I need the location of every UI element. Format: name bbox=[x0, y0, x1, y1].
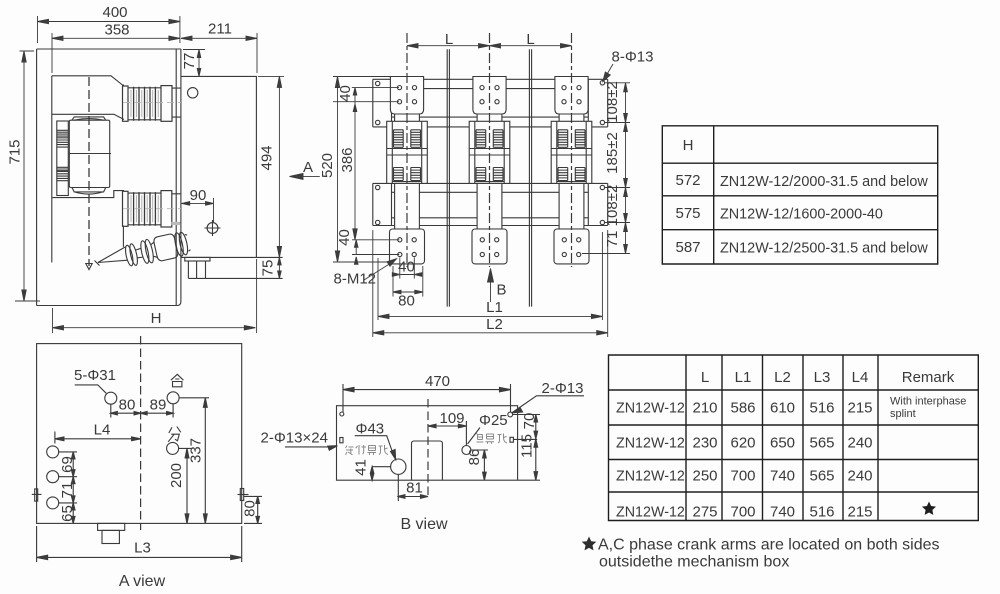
svg-text:B: B bbox=[497, 282, 507, 299]
L table row 4 bbox=[616, 504, 873, 521]
svg-text:185±2: 185±2 bbox=[604, 132, 621, 174]
dim 71 (left) bbox=[58, 477, 77, 503]
svg-text:L2: L2 bbox=[486, 316, 503, 333]
lower bushing ribs bbox=[134, 192, 156, 226]
svg-text:250: 250 bbox=[692, 468, 717, 485]
foot bottom line with extension bbox=[188, 277, 282, 279]
svg-text:H: H bbox=[683, 137, 694, 154]
svg-text:L4: L4 bbox=[94, 422, 111, 439]
svg-text:358: 358 bbox=[104, 22, 129, 39]
lower bushing rib shadows bbox=[131, 195, 158, 222]
flexible insulator ribs bbox=[124, 230, 192, 268]
dim 40 top line bbox=[354, 88, 356, 102]
mechanism box front outline bbox=[37, 344, 242, 524]
SIDE VIEW DIMENSIONS bbox=[7, 4, 320, 333]
svg-text:outsidethe mechanism box: outsidethe mechanism box bbox=[599, 554, 789, 571]
dim L right segment bbox=[490, 45, 572, 47]
interrupter cylinder body bbox=[69, 120, 109, 187]
interrupter mid line bbox=[69, 153, 111, 155]
top mounting rail bbox=[373, 79, 608, 127]
L table row 2 bbox=[616, 435, 873, 452]
side hole 2 bbox=[47, 471, 59, 483]
svg-text:L3: L3 bbox=[134, 540, 151, 557]
dim 75 arrows bbox=[278, 257, 282, 278]
svg-text:L: L bbox=[701, 369, 709, 386]
dim H line bbox=[53, 259, 257, 333]
svg-text:80: 80 bbox=[398, 293, 415, 310]
svg-text:565: 565 bbox=[809, 435, 834, 452]
upper bushing stub bbox=[172, 88, 181, 117]
right mount tab bbox=[238, 489, 249, 501]
frame hole circle bbox=[188, 88, 198, 98]
left column hatch band 2 bbox=[57, 138, 69, 147]
left support column bbox=[57, 121, 69, 196]
dim 115 bbox=[518, 439, 540, 481]
svg-text:L: L bbox=[445, 31, 453, 48]
svg-text:200: 200 bbox=[168, 463, 185, 488]
svg-text:Φ25: Φ25 bbox=[479, 412, 508, 429]
dim 211 line bbox=[181, 33, 257, 73]
svg-text:L1: L1 bbox=[735, 369, 752, 386]
pole A bbox=[387, 33, 428, 267]
dim 40 bottom-left line bbox=[355, 240, 357, 255]
svg-text:620: 620 bbox=[730, 435, 755, 452]
dim 77 arrows bbox=[197, 50, 201, 77]
A direction arrow bbox=[302, 175, 320, 177]
dim H arrows bbox=[53, 326, 256, 330]
left extension lines bbox=[333, 77, 399, 263]
lower bushing centerline bbox=[123, 208, 181, 210]
dim 40 horizontal bbox=[400, 258, 415, 279]
dim 65 bbox=[72, 503, 74, 524]
svg-text:40: 40 bbox=[336, 229, 353, 246]
label 8-Φ13 leader bbox=[605, 64, 614, 79]
svg-text:115: 115 bbox=[519, 434, 536, 458]
open symbol 分 bbox=[168, 427, 181, 442]
lower arm top outline bbox=[52, 191, 124, 198]
svg-text:With interphase: With interphase bbox=[890, 396, 966, 408]
L table row 3 bbox=[616, 468, 873, 485]
svg-text:ZN12W-12/2000-31.5 and below: ZN12W-12/2000-31.5 and below bbox=[720, 174, 928, 190]
label buffer-hole (Chinese) bbox=[346, 445, 389, 455]
svg-text:494: 494 bbox=[259, 145, 276, 170]
dim 520 line bbox=[337, 77, 339, 263]
svg-text:109: 109 bbox=[439, 410, 464, 427]
svg-text:A,C phase crank arms are locat: A,C phase crank arms are located on both… bbox=[598, 537, 940, 554]
svg-text:572: 572 bbox=[675, 172, 700, 189]
left column hatch band 4 bbox=[57, 172, 69, 181]
label 2-Φ13×24 leader bbox=[285, 446, 333, 448]
svg-text:215: 215 bbox=[847, 504, 872, 521]
notch cutout bbox=[412, 441, 443, 480]
dim L left segment bbox=[407, 45, 490, 47]
dim 86 bbox=[471, 450, 488, 480]
slot hole left edge bbox=[340, 438, 343, 443]
svg-text:H: H bbox=[151, 310, 162, 327]
pole frame plate bbox=[181, 76, 257, 257]
dim 108±2 top line bbox=[625, 83, 627, 123]
dim 400 arrows bbox=[38, 19, 180, 23]
svg-text:516: 516 bbox=[809, 504, 834, 521]
H table grid bbox=[662, 126, 937, 264]
svg-text:215: 215 bbox=[847, 400, 872, 417]
svg-text:650: 650 bbox=[770, 435, 795, 452]
tie rod 2 bbox=[529, 49, 531, 306]
close symbol 合 bbox=[171, 374, 184, 387]
svg-text:586: 586 bbox=[730, 400, 755, 417]
dim 358 arrows bbox=[52, 36, 180, 40]
lower bushing end cap bbox=[161, 191, 172, 227]
svg-text:80: 80 bbox=[242, 500, 259, 517]
upper arm bottom outline bbox=[52, 114, 124, 119]
dim 90 arrows bbox=[182, 202, 214, 206]
svg-text:8-M12: 8-M12 bbox=[334, 271, 377, 288]
svg-text:L2: L2 bbox=[774, 369, 791, 386]
crank hole right (close) bbox=[167, 392, 179, 404]
dim 80 horizontal bbox=[393, 266, 423, 297]
lower bushing flange bbox=[123, 191, 129, 226]
svg-text:ZN12W-12/1600-2000-40: ZN12W-12/1600-2000-40 bbox=[720, 207, 883, 223]
lower bushing stub shade bbox=[171, 222, 180, 225]
upper bushing centerline bbox=[123, 102, 181, 104]
svg-text:386: 386 bbox=[339, 147, 356, 172]
SIDE VIEW GROUP bbox=[37, 49, 283, 306]
dim 77 line bbox=[183, 50, 205, 77]
dim 70 bbox=[512, 415, 540, 439]
bottom foot stem bbox=[102, 530, 119, 543]
svg-text:L3: L3 bbox=[814, 369, 831, 386]
dim 715 arrows bbox=[22, 51, 26, 301]
A view centerline bbox=[140, 336, 142, 530]
bottom foot flange bbox=[98, 523, 125, 530]
svg-text:5-Φ31: 5-Φ31 bbox=[74, 367, 116, 384]
svg-text:ZN12W-12: ZN12W-12 bbox=[616, 469, 685, 485]
svg-text:8-Φ13: 8-Φ13 bbox=[612, 49, 654, 66]
B direction arrow bbox=[490, 273, 492, 303]
L table header row bbox=[701, 369, 955, 386]
svg-text:65: 65 bbox=[59, 505, 76, 522]
frame bottom edge with 75-dim extension bbox=[181, 256, 283, 258]
interrupter bottom cap bbox=[72, 188, 106, 195]
svg-text:610: 610 bbox=[770, 400, 795, 417]
base plate outline bbox=[337, 406, 518, 481]
dim L1 bbox=[378, 232, 602, 320]
svg-text:575: 575 bbox=[675, 205, 700, 222]
pole C bbox=[551, 33, 592, 267]
svg-text:90: 90 bbox=[190, 187, 207, 204]
dim 71 line bbox=[625, 223, 627, 254]
svg-text:71: 71 bbox=[59, 482, 76, 499]
svg-text:80: 80 bbox=[119, 397, 136, 414]
svg-text:40: 40 bbox=[398, 259, 415, 276]
svg-text:86: 86 bbox=[466, 449, 483, 466]
mechanism box outline bbox=[37, 49, 181, 306]
dim 108±2 bottom line bbox=[625, 188, 627, 223]
lower bushing stub bbox=[172, 194, 181, 223]
right edge hole extension bbox=[513, 438, 537, 440]
upper bushing rib shadows bbox=[131, 90, 158, 117]
label Φ25 leader bbox=[468, 428, 481, 445]
svg-text:40: 40 bbox=[337, 85, 354, 102]
svg-text:2-Φ13×24: 2-Φ13×24 bbox=[261, 430, 328, 447]
svg-text:2-Φ13: 2-Φ13 bbox=[542, 380, 584, 397]
upper bushing end cap bbox=[161, 86, 172, 122]
label 2-Φ13 leader bbox=[515, 396, 585, 411]
A VIEW GROUP bbox=[32, 336, 262, 590]
upper arm top outline bbox=[52, 76, 124, 85]
svg-text:740: 740 bbox=[770, 468, 795, 485]
pole B bbox=[469, 33, 510, 267]
dim 358 line bbox=[52, 33, 180, 73]
svg-text:81: 81 bbox=[406, 480, 423, 497]
footnote star bbox=[582, 537, 597, 551]
svg-text:337: 337 bbox=[188, 438, 205, 463]
svg-text:240: 240 bbox=[847, 435, 872, 452]
svg-text:77: 77 bbox=[181, 53, 198, 70]
upper bushing flange bbox=[123, 86, 129, 121]
dim 109 bbox=[428, 421, 466, 446]
dim 41 bbox=[372, 467, 391, 481]
bottom mounting rail bbox=[373, 183, 608, 225]
svg-text:108±2: 108±2 bbox=[604, 81, 621, 123]
svg-text:A: A bbox=[303, 159, 313, 176]
svg-text:700: 700 bbox=[730, 504, 755, 521]
open indicator hole bbox=[167, 442, 179, 454]
dim 494 arrows bbox=[277, 76, 281, 257]
dim 715 line bbox=[15, 51, 40, 301]
frame foot flange bbox=[185, 257, 210, 261]
dim 81 bbox=[397, 474, 428, 501]
L table grid bbox=[609, 355, 979, 521]
left column hatch band 3 bbox=[57, 167, 69, 170]
svg-text:ZN12W-12: ZN12W-12 bbox=[616, 436, 685, 452]
side view centerline bbox=[88, 77, 90, 266]
B view centerline bbox=[427, 399, 429, 498]
svg-text:470: 470 bbox=[425, 373, 450, 390]
svg-text:75: 75 bbox=[260, 260, 277, 277]
tie rod 1 bbox=[447, 49, 449, 306]
svg-text:516: 516 bbox=[809, 400, 834, 417]
svg-text:ZN12W-12: ZN12W-12 bbox=[616, 505, 685, 521]
svg-text:740: 740 bbox=[770, 504, 795, 521]
svg-text:211: 211 bbox=[208, 21, 232, 38]
dim 211 arrows bbox=[181, 36, 257, 40]
dim 200 bbox=[179, 448, 191, 523]
svg-text:ZN12W-12/2500-31.5 and below: ZN12W-12/2500-31.5 and below bbox=[720, 241, 928, 257]
crosshair hole bbox=[205, 220, 221, 236]
corner hole left bbox=[340, 412, 344, 416]
side hole 1 bbox=[47, 446, 59, 458]
svg-text:230: 230 bbox=[692, 435, 717, 452]
svg-text:L1: L1 bbox=[486, 299, 503, 316]
svg-text:41: 41 bbox=[353, 459, 370, 476]
svg-text:ZN12W-12: ZN12W-12 bbox=[616, 401, 685, 417]
dim 185±2 line bbox=[625, 123, 627, 188]
upper bushing ribs bbox=[134, 87, 156, 121]
FRONT VIEW DIMENSIONS bbox=[319, 31, 654, 337]
lower bushing rib section bbox=[128, 193, 161, 225]
svg-text:210: 210 bbox=[692, 400, 717, 417]
frame foot box bbox=[188, 261, 205, 278]
interlock hole Φ25 bbox=[462, 446, 471, 455]
right dim extension lines bbox=[582, 83, 630, 254]
svg-text:89: 89 bbox=[150, 397, 167, 414]
dim L3 bbox=[37, 526, 242, 562]
svg-text:715: 715 bbox=[7, 139, 24, 164]
dim 69 bbox=[58, 452, 77, 477]
svg-text:275: 275 bbox=[692, 504, 717, 521]
dim 400 line bbox=[38, 16, 180, 43]
svg-text:520: 520 bbox=[319, 153, 336, 178]
svg-text:587: 587 bbox=[675, 239, 700, 256]
flexible insulator cone bbox=[95, 247, 128, 266]
svg-text:Φ43: Φ43 bbox=[356, 421, 385, 438]
FRONT VIEW GROUP bbox=[373, 33, 608, 307]
dim 386 line bbox=[354, 102, 356, 240]
svg-text:71: 71 bbox=[604, 231, 621, 248]
dim 470 bbox=[343, 384, 511, 412]
svg-text:A view: A view bbox=[119, 573, 166, 590]
lower arm right edge bbox=[122, 226, 124, 247]
svg-text:565: 565 bbox=[809, 468, 834, 485]
interrupter top cap bbox=[72, 117, 106, 120]
svg-text:L: L bbox=[526, 31, 534, 48]
svg-text:Remark: Remark bbox=[902, 369, 955, 386]
dim 89 bbox=[141, 404, 174, 418]
dim L2 bbox=[373, 230, 608, 337]
dim L4 bbox=[55, 432, 141, 444]
label 8-M12 leader bbox=[364, 261, 395, 280]
svg-text:B view: B view bbox=[400, 516, 448, 533]
dim 90 line bbox=[182, 198, 214, 222]
TABLES GROUP bbox=[582, 126, 979, 571]
svg-text:240: 240 bbox=[847, 468, 872, 485]
dim 337 bbox=[179, 398, 209, 524]
corner hole right bbox=[508, 412, 513, 417]
left mount tab bbox=[32, 489, 42, 501]
frame front panel line bbox=[51, 76, 53, 263]
dim 75 line bbox=[278, 257, 280, 278]
crank hole left bbox=[105, 392, 117, 404]
L table row 4 star bbox=[922, 502, 936, 515]
dim 80 (right side) bbox=[244, 496, 262, 523]
left column hatch band 1 bbox=[57, 130, 69, 136]
svg-text:400: 400 bbox=[102, 4, 127, 21]
svg-text:splint: splint bbox=[890, 408, 916, 420]
label 5-Φ31 leader bbox=[75, 385, 107, 393]
label Φ43 leader bbox=[355, 436, 394, 455]
svg-text:L4: L4 bbox=[852, 369, 869, 386]
box right inner edge bbox=[175, 49, 177, 306]
svg-text:108±2: 108±2 bbox=[604, 185, 621, 227]
dim 494 line bbox=[258, 76, 284, 257]
dim 80 (crank) bbox=[111, 404, 141, 418]
label interlock-hole (Chinese) bbox=[476, 434, 507, 444]
centerline tip triangle bbox=[86, 264, 92, 270]
side hole 3 bbox=[47, 497, 59, 509]
svg-text:69: 69 bbox=[59, 456, 76, 473]
upper bushing rib section bbox=[128, 88, 161, 120]
svg-text:70: 70 bbox=[521, 413, 538, 430]
buffer hole Φ43 bbox=[391, 459, 406, 474]
svg-text:700: 700 bbox=[730, 468, 755, 485]
slot hole right edge bbox=[510, 437, 513, 442]
rail corner holes bbox=[376, 81, 605, 225]
B VIEW GROUP bbox=[261, 373, 585, 533]
L table row 1 bbox=[616, 396, 966, 421]
